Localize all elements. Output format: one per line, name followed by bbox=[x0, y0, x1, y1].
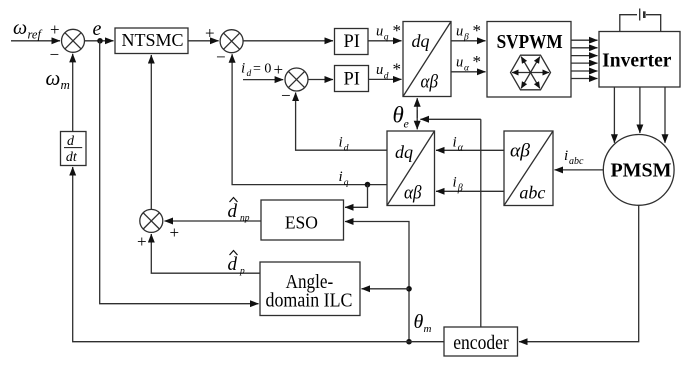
wire iq feedback bbox=[232, 54, 387, 184]
block ESO bbox=[261, 200, 344, 240]
label alphabeta lower voltage bbox=[421, 71, 439, 92]
battery DC link bbox=[620, 9, 661, 32]
label ud star bbox=[376, 60, 401, 82]
label Inverter text bbox=[602, 51, 672, 72]
wire ILC dp to J4 bbox=[151, 234, 260, 273]
svg-text:domain ILC: domain ILC bbox=[266, 289, 353, 311]
label dq upper voltage bbox=[412, 31, 430, 51]
label ialpha bbox=[453, 135, 464, 154]
svg-text:d: d bbox=[67, 134, 75, 149]
wire NTSMC to J2 bbox=[188, 40, 219, 42]
label omega_ref bbox=[13, 17, 42, 42]
svg-text:PI: PI bbox=[343, 32, 359, 52]
wire J4 to NTSMC bbox=[150, 55, 152, 209]
wire encoder up line bbox=[480, 119, 482, 327]
svg-text:PMSM: PMSM bbox=[610, 159, 671, 181]
svg-text:NTSMC: NTSMC bbox=[121, 30, 183, 50]
svg-text:+: + bbox=[50, 20, 60, 39]
label minus J2 bbox=[216, 48, 226, 67]
svg-text:np: np bbox=[240, 214, 250, 224]
svg-text:β: β bbox=[457, 183, 463, 194]
svg-text:*: * bbox=[473, 21, 482, 40]
svg-text:SVPWM: SVPWM bbox=[497, 31, 563, 53]
svg-text:dq: dq bbox=[395, 142, 413, 162]
node theta_m dot ILC bbox=[406, 286, 412, 292]
block dq/alphabeta voltage transform bbox=[403, 22, 451, 97]
wire theta_e double arrow bbox=[416, 98, 418, 129]
label ubeta star bbox=[456, 21, 481, 43]
svg-text:u: u bbox=[456, 23, 463, 39]
block Angle-domain ILC bbox=[260, 262, 360, 316]
summing junction J3 bbox=[285, 68, 308, 91]
svg-text:d: d bbox=[228, 201, 238, 222]
svg-text:m: m bbox=[61, 77, 70, 92]
label theta_m bbox=[414, 311, 432, 335]
svg-text:i: i bbox=[339, 169, 343, 185]
label e bbox=[93, 18, 102, 40]
node theta_m dot lower bbox=[406, 339, 412, 345]
label Angle-domain ILC text bbox=[266, 271, 353, 311]
wire iq to ESO bbox=[345, 185, 368, 208]
svg-text:dq: dq bbox=[412, 31, 430, 51]
label minus J3 bbox=[281, 86, 291, 105]
wire J1 to NTSMC bbox=[85, 40, 114, 42]
label plus J4 bottom bbox=[137, 232, 147, 251]
wire encoder to d/dt feedback bbox=[73, 167, 444, 342]
svg-text:θ: θ bbox=[393, 103, 404, 128]
block PI1 bbox=[335, 29, 369, 55]
svg-text:d: d bbox=[344, 144, 349, 154]
wire PMSM to encoder bbox=[519, 205, 639, 341]
label minus J1 bbox=[50, 45, 60, 64]
label plus J4 right bbox=[170, 223, 180, 242]
summing junction J2 bbox=[220, 30, 243, 53]
svg-text:ω: ω bbox=[46, 66, 61, 90]
svg-text:ref: ref bbox=[28, 28, 43, 42]
svg-text:abc: abc bbox=[569, 156, 584, 167]
svg-text:e: e bbox=[404, 117, 410, 131]
wire id feedback bbox=[296, 93, 387, 151]
svg-text:*: * bbox=[393, 21, 402, 40]
svg-text:−: − bbox=[50, 45, 60, 64]
svg-text:Inverter: Inverter bbox=[602, 51, 672, 72]
svg-text:u: u bbox=[376, 62, 383, 78]
block d/dt bbox=[61, 132, 87, 166]
svg-text:i: i bbox=[453, 135, 457, 151]
svg-text:β: β bbox=[463, 33, 469, 43]
label alphabeta abc upper bbox=[510, 141, 531, 162]
svg-text:dt: dt bbox=[66, 150, 78, 165]
label id bbox=[339, 135, 349, 154]
svg-text:d: d bbox=[384, 71, 389, 81]
label plus J1 bbox=[50, 20, 60, 39]
svg-text:u: u bbox=[376, 23, 383, 39]
svg-text:α: α bbox=[458, 143, 464, 154]
wire ialpha bbox=[436, 149, 504, 151]
wire ibeta bbox=[436, 190, 504, 192]
wire theta feed from encoder line bbox=[420, 118, 480, 120]
label uq star bbox=[376, 21, 401, 43]
block PI2 bbox=[335, 66, 369, 92]
svg-text:i: i bbox=[241, 61, 245, 77]
label iabc bbox=[564, 148, 584, 167]
label dp hat bbox=[228, 251, 246, 277]
block Inverter bbox=[599, 32, 680, 88]
svg-text:+: + bbox=[137, 232, 147, 251]
wire SVPWM to Inverter 6 gate lines bbox=[571, 40, 598, 78]
svg-text:αβ: αβ bbox=[421, 71, 439, 92]
svg-text:= 0: = 0 bbox=[253, 62, 271, 77]
wire dq to SVPWM (ualpha*) bbox=[451, 71, 486, 73]
label omega_m bbox=[46, 66, 70, 92]
summing junction J4 bbox=[140, 209, 163, 232]
block NTSMC bbox=[115, 28, 188, 54]
svg-text:+: + bbox=[274, 60, 284, 79]
label encoder text bbox=[453, 332, 509, 354]
label theta_e bbox=[393, 103, 410, 131]
svg-text:+: + bbox=[205, 23, 215, 42]
svg-text:e: e bbox=[93, 18, 102, 40]
wire id=0 input bbox=[243, 79, 283, 81]
wire J2 to PI1 bbox=[243, 40, 333, 42]
svg-text:m: m bbox=[424, 323, 432, 335]
svg-text:p: p bbox=[239, 267, 245, 277]
wire ESO to J4 (dnp) bbox=[165, 220, 262, 222]
wire PMSM to abc block (iabc) bbox=[555, 169, 604, 171]
block dq/alphabeta current transform bbox=[387, 131, 435, 206]
svg-text:abc: abc bbox=[519, 182, 545, 202]
label dnp hat bbox=[228, 198, 250, 224]
svg-text:PI: PI bbox=[343, 69, 359, 89]
svg-text:u: u bbox=[456, 55, 463, 71]
svg-text:θ: θ bbox=[414, 311, 424, 333]
svg-text:i: i bbox=[339, 135, 343, 151]
svg-text:i: i bbox=[453, 175, 457, 191]
svg-text:d: d bbox=[228, 254, 238, 275]
svg-text:+: + bbox=[170, 223, 180, 242]
svg-text:encoder: encoder bbox=[453, 332, 509, 354]
label PMSM text bbox=[610, 159, 671, 181]
svg-text:d: d bbox=[247, 69, 252, 79]
node e junction dot bbox=[97, 38, 103, 44]
label d/dt fraction bbox=[64, 134, 82, 165]
wire d/dt to J1 bbox=[72, 54, 74, 132]
label ualpha star bbox=[456, 52, 481, 74]
wire PI1 to dq block (uq*) bbox=[368, 40, 402, 42]
label abc lower bbox=[519, 182, 545, 202]
node iq junction dot bbox=[365, 182, 371, 188]
label PI2 text bbox=[343, 69, 359, 89]
block SVPWM bbox=[487, 22, 571, 98]
svg-text:αβ: αβ bbox=[510, 141, 531, 162]
summing junction J1 bbox=[62, 29, 85, 52]
wire dq to SVPWM (ubeta*) bbox=[451, 40, 486, 42]
label alphabeta lower current bbox=[404, 182, 422, 203]
svg-text:i: i bbox=[564, 148, 568, 164]
block PMSM motor circle bbox=[603, 135, 674, 206]
label id equals 0 bbox=[241, 61, 271, 79]
icon hexagon space vectors bbox=[511, 55, 551, 90]
wire e branch to ILC bbox=[100, 41, 259, 304]
svg-text:q: q bbox=[344, 178, 349, 188]
label PI1 text bbox=[343, 32, 359, 52]
label SVPWM text bbox=[497, 31, 563, 53]
wire J3 to PI2 bbox=[308, 79, 333, 81]
svg-text:αβ: αβ bbox=[404, 182, 422, 203]
svg-text:*: * bbox=[473, 52, 482, 71]
svg-text:−: − bbox=[281, 86, 291, 105]
label plus J2 bbox=[205, 23, 215, 42]
wire theta_m to ILC bbox=[362, 288, 410, 290]
wire omega_ref input bbox=[11, 40, 60, 42]
wire Inverter to PMSM 3 phase lines bbox=[614, 87, 665, 143]
svg-text:ESO: ESO bbox=[285, 212, 318, 232]
label ESO text bbox=[285, 212, 318, 232]
svg-text:ω: ω bbox=[13, 17, 27, 39]
label ibeta bbox=[453, 175, 463, 195]
svg-text:q: q bbox=[384, 33, 389, 43]
wire theta_m to ESO bbox=[345, 222, 409, 342]
label iq bbox=[339, 169, 349, 188]
label NTSMC text bbox=[121, 30, 183, 50]
block alphabeta/abc transform bbox=[504, 131, 553, 206]
block encoder bbox=[444, 327, 518, 356]
label plus J3 bbox=[274, 60, 284, 79]
svg-text:−: − bbox=[216, 48, 226, 67]
wire PI2 to dq block (ud*) bbox=[369, 78, 402, 80]
label dq upper current bbox=[395, 142, 413, 162]
svg-text:*: * bbox=[393, 60, 402, 79]
